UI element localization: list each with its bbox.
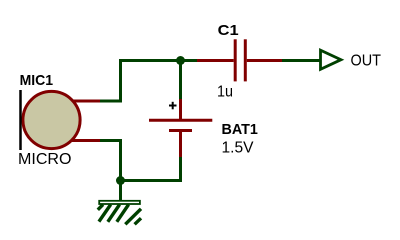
svg-text:BAT1: BAT1 (222, 121, 258, 138)
svg-text:1u: 1u (217, 84, 233, 101)
svg-text:C1: C1 (218, 22, 239, 39)
svg-text:OUT: OUT (351, 53, 382, 70)
svg-text:MIC1: MIC1 (20, 72, 54, 89)
svg-text:MICRO: MICRO (18, 151, 72, 168)
svg-text:1.5V: 1.5V (222, 140, 254, 157)
